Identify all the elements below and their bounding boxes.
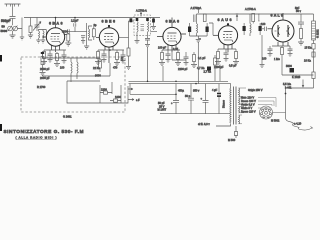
coil L1 antenna (36, 31, 40, 43)
svg-text:ai fil. 6,3 v: ai fil. 6,3 v (198, 122, 210, 126)
antenna (5, 4, 21, 16)
resistor R12 box section (40, 52, 46, 76)
svg-text:SINTONIZZATORE G. 530- F.M: SINTONIZZATORE G. 530- F.M (4, 129, 84, 135)
svg-text:Nero 220 V: Nero 220 V (241, 96, 254, 100)
capacitor C8 (224, 49, 229, 62)
svg-text:50 v: 50 v (296, 9, 302, 13)
trimmer pair input (8, 26, 18, 32)
wire V1 anode to osc (67, 31, 87, 33)
ground osc (84, 44, 89, 49)
svg-text:50: 50 (2, 25, 6, 29)
svg-text:100: 100 (261, 22, 266, 26)
svg-text:5000: 5000 (62, 30, 68, 34)
wire AVC right (282, 74, 314, 76)
resistor R8 (191, 52, 197, 68)
coil L1b antenna (41, 31, 45, 43)
svg-text:A 2702-A: A 2702-A (245, 7, 256, 11)
tube V4 6AU6 (213, 24, 238, 52)
resistor T1 right shunt (151, 19, 156, 30)
svg-text:5600: 5600 (286, 64, 292, 68)
svg-text:0,1 µF: 0,1 µF (198, 56, 206, 60)
resistor R9 (215, 49, 221, 65)
resistor R18 (286, 72, 316, 88)
resistor R19 5600 (290, 68, 295, 73)
svg-text:a 4,20: a 4,20 (294, 122, 302, 126)
lead routing lines (258, 98, 276, 109)
svg-text:G 2232: G 2232 (316, 29, 320, 38)
resistor R5 (114, 50, 120, 66)
tube socket bottom view (260, 106, 273, 119)
capacitor C4 (102, 50, 107, 63)
wire V3 cathode rail (162, 49, 180, 51)
solid output box (67, 81, 128, 103)
resistor R11 V5 (281, 46, 284, 75)
scan artifact left edge 1 (0, 55, 2, 62)
resistor R13 (99, 60, 102, 72)
svg-text:15 Ka: 15 Ka (305, 46, 312, 50)
svg-text:3000: 3000 (95, 74, 101, 78)
mains cord twisted (286, 119, 313, 131)
capacitor C5 (121, 50, 126, 64)
wire top bus right (197, 13, 314, 15)
arrow T2 feed (197, 7, 199, 13)
resistor R22 470 (126, 37, 131, 69)
svg-text:a F: a F (136, 98, 140, 102)
coil L4 (71, 58, 78, 76)
wire audio line (130, 84, 176, 95)
arrow T1 feed (140, 12, 142, 16)
svg-text:6BA6: 6BA6 (49, 21, 63, 25)
grid cap dot V2 (108, 25, 110, 27)
capacitor C12 (188, 84, 194, 114)
scan artifact left edge 2 (0, 124, 2, 131)
junction dot audio cap (175, 94, 177, 96)
wire bus A (129, 80, 229, 82)
svg-text:N 5802: N 5802 (271, 119, 280, 123)
resistor R osc grid (65, 33, 71, 46)
capacitor C15 4uF (217, 84, 221, 114)
svg-text:M 1957: M 1957 (158, 108, 167, 112)
tube V5 6AL5 (268, 13, 295, 46)
wire socket to mains (273, 112, 286, 114)
svg-text:2000 pF: 2000 pF (40, 67, 50, 71)
capacitor C14 5uF (298, 14, 304, 29)
svg-text:6BE6: 6BE6 (102, 20, 116, 24)
svg-text:Verde 6,3 V: Verde 6,3 V (241, 103, 255, 107)
wire V2 anode down (109, 63, 111, 76)
ground T2 (196, 39, 201, 43)
svg-text:5000: 5000 (1, 29, 8, 33)
resistor R input (28, 18, 33, 39)
svg-text:100: 100 (262, 57, 267, 61)
svg-text:1 Mo: 1 Mo (274, 57, 280, 61)
capacitor C1 500pF (10, 17, 16, 26)
wire mains drop (285, 88, 287, 119)
resistor R15 1000 (110, 99, 121, 102)
resistor R16 (298, 29, 304, 46)
wire V2 to T1 (119, 21, 134, 37)
wire antenna to tuner (18, 18, 25, 41)
svg-text:100: 100 (60, 66, 65, 70)
svg-text:2,2 pF: 2,2 pF (71, 19, 79, 23)
transformer primary leads (212, 84, 231, 126)
svg-text:R 2790: R 2790 (37, 85, 46, 89)
wire coil tops (39, 30, 47, 38)
svg-text:Bianco: Bianco (222, 100, 226, 108)
svg-text:100 pF: 100 pF (158, 46, 166, 50)
svg-text:350 v: 350 v (193, 89, 200, 93)
resistor R7 (175, 50, 181, 66)
capacitor C13 (203, 84, 209, 114)
svg-text:6BA6: 6BA6 (166, 19, 180, 23)
wire grid bus left (24, 17, 160, 19)
capacitor C3 (62, 50, 67, 64)
resistor R14 2200 (100, 91, 112, 94)
ground antenna (10, 31, 16, 38)
wire tap x222 (219, 65, 221, 82)
resistor R6 (159, 50, 165, 66)
capacitor C2 (48, 50, 53, 63)
capacitor C7 (184, 52, 189, 66)
IF transformer T3 A2702-A (243, 14, 262, 37)
wire V2 cathode rail (98, 49, 124, 51)
IF transformer T2 A2702-A (188, 14, 209, 39)
svg-text:A 2702-A: A 2702-A (136, 8, 147, 12)
resistor R20 tap (214, 55, 217, 81)
junction dots bus (55, 17, 197, 85)
wire verticals output box (100, 82, 121, 103)
wire T3 to V5 (262, 28, 264, 30)
tube V1 6BA6 (42, 18, 67, 53)
choke right edge (312, 14, 316, 40)
wire V3 anode down (172, 52, 186, 60)
svg-text:A 2702-A: A 2702-A (191, 6, 202, 10)
capacitor C osc pad (81, 35, 85, 43)
cap T1 bottom right (145, 35, 150, 48)
svg-text:G 2481: G 2481 (63, 115, 72, 119)
svg-text:500pF: 500pF (1, 19, 11, 23)
wire box section top (43, 57, 101, 61)
svg-text:470: 470 (113, 66, 118, 70)
capacitor C V5 coupling (265, 27, 267, 31)
svg-text:2200 pF: 2200 pF (178, 67, 188, 71)
wire T2 to V4 (209, 23, 213, 35)
capacitor C 2,2pF series (74, 18, 76, 32)
svg-text:50 µ: 50 µ (185, 94, 191, 98)
subtitle underline (16, 138, 57, 140)
resistor R21 10Ka (312, 52, 315, 57)
svg-text:2200 pF: 2200 pF (214, 65, 224, 69)
svg-text:4 µF: 4 µF (212, 88, 218, 92)
cap T1 bottom left (135, 35, 140, 44)
svg-text:0,5 µF: 0,5 µF (229, 64, 237, 68)
wire box section bottom (43, 76, 111, 82)
grid cap dot V4 (227, 23, 229, 25)
wire V4 cathode rail (218, 48, 236, 50)
transformer secondary leads (239, 88, 247, 124)
svg-text:Grigio 250 V: Grigio 250 V (248, 88, 263, 92)
wire T3 secondary down (260, 35, 265, 68)
svg-text:Giallo 5 V: Giallo 5 V (241, 106, 253, 110)
capacitor C9 V5 (268, 46, 273, 57)
svg-text:K 2026: K 2026 (292, 75, 301, 79)
svg-text:b 441: b 441 (285, 86, 292, 90)
tube V3 6BA6 (157, 18, 186, 53)
svg-text:2000 µF: 2000 µF (40, 76, 50, 80)
svg-text:2200: 2200 (101, 88, 107, 92)
resistor R17 15Ka (312, 40, 315, 72)
wire V5 pins rail (272, 45, 290, 47)
dashed shield box G2481 (21, 57, 125, 112)
svg-text:Rosso 110 V: Rosso 110 V (241, 110, 256, 114)
svg-text:( ALLA RADIO MIDI ): ( ALLA RADIO MIDI ) (16, 135, 57, 139)
output arrow a F (128, 99, 134, 101)
wire tap x198 (197, 43, 199, 84)
output arrow a M (128, 88, 133, 90)
wire T1 to V3 (151, 18, 158, 32)
capacitor C6 (166, 50, 171, 63)
power transformer secondary windings (239, 88, 240, 124)
capacitor C11 50uF (173, 84, 179, 114)
svg-text:10 Ka: 10 Ka (304, 59, 311, 63)
resistor R4 (95, 50, 101, 65)
power transformer core (234, 87, 237, 125)
svg-text:M 580: M 580 (228, 138, 236, 142)
wire V1 cathode rail (44, 49, 66, 51)
fuse bottom (235, 126, 238, 138)
resistor R3 (54, 52, 60, 67)
resistor T1 left shunt (130, 18, 133, 22)
capacitor C osc coupling (68, 29, 70, 33)
capacitor dark blob mid (207, 67, 211, 71)
wire bus B (129, 83, 213, 85)
power transformer primary (230, 88, 231, 123)
wire tap x163 (162, 66, 164, 81)
IF transformer T1 A2702-A (134, 15, 151, 36)
wire tap x146 (147, 48, 149, 82)
ground rail PSU (160, 113, 230, 115)
tube V2 6BE6 (96, 26, 119, 63)
svg-text:450µ: 450µ (178, 89, 184, 93)
svg-text:5,5 Ma: 5,5 Ma (283, 82, 291, 86)
svg-text:1000: 1000 (115, 95, 121, 99)
variable capacitor CV1 (33, 18, 41, 32)
svg-text:0,25: 0,25 (173, 47, 179, 51)
capacitor C10 V5 (288, 46, 293, 57)
resistor R2 (41, 50, 47, 65)
svg-text:Rosso 190 V: Rosso 190 V (241, 99, 256, 103)
coil L osc (87, 23, 92, 44)
resistor R10 (233, 49, 239, 65)
arrow output down (302, 80, 304, 88)
arrow T3 feed (236, 14, 239, 21)
resistor R osc anode (92, 26, 95, 40)
